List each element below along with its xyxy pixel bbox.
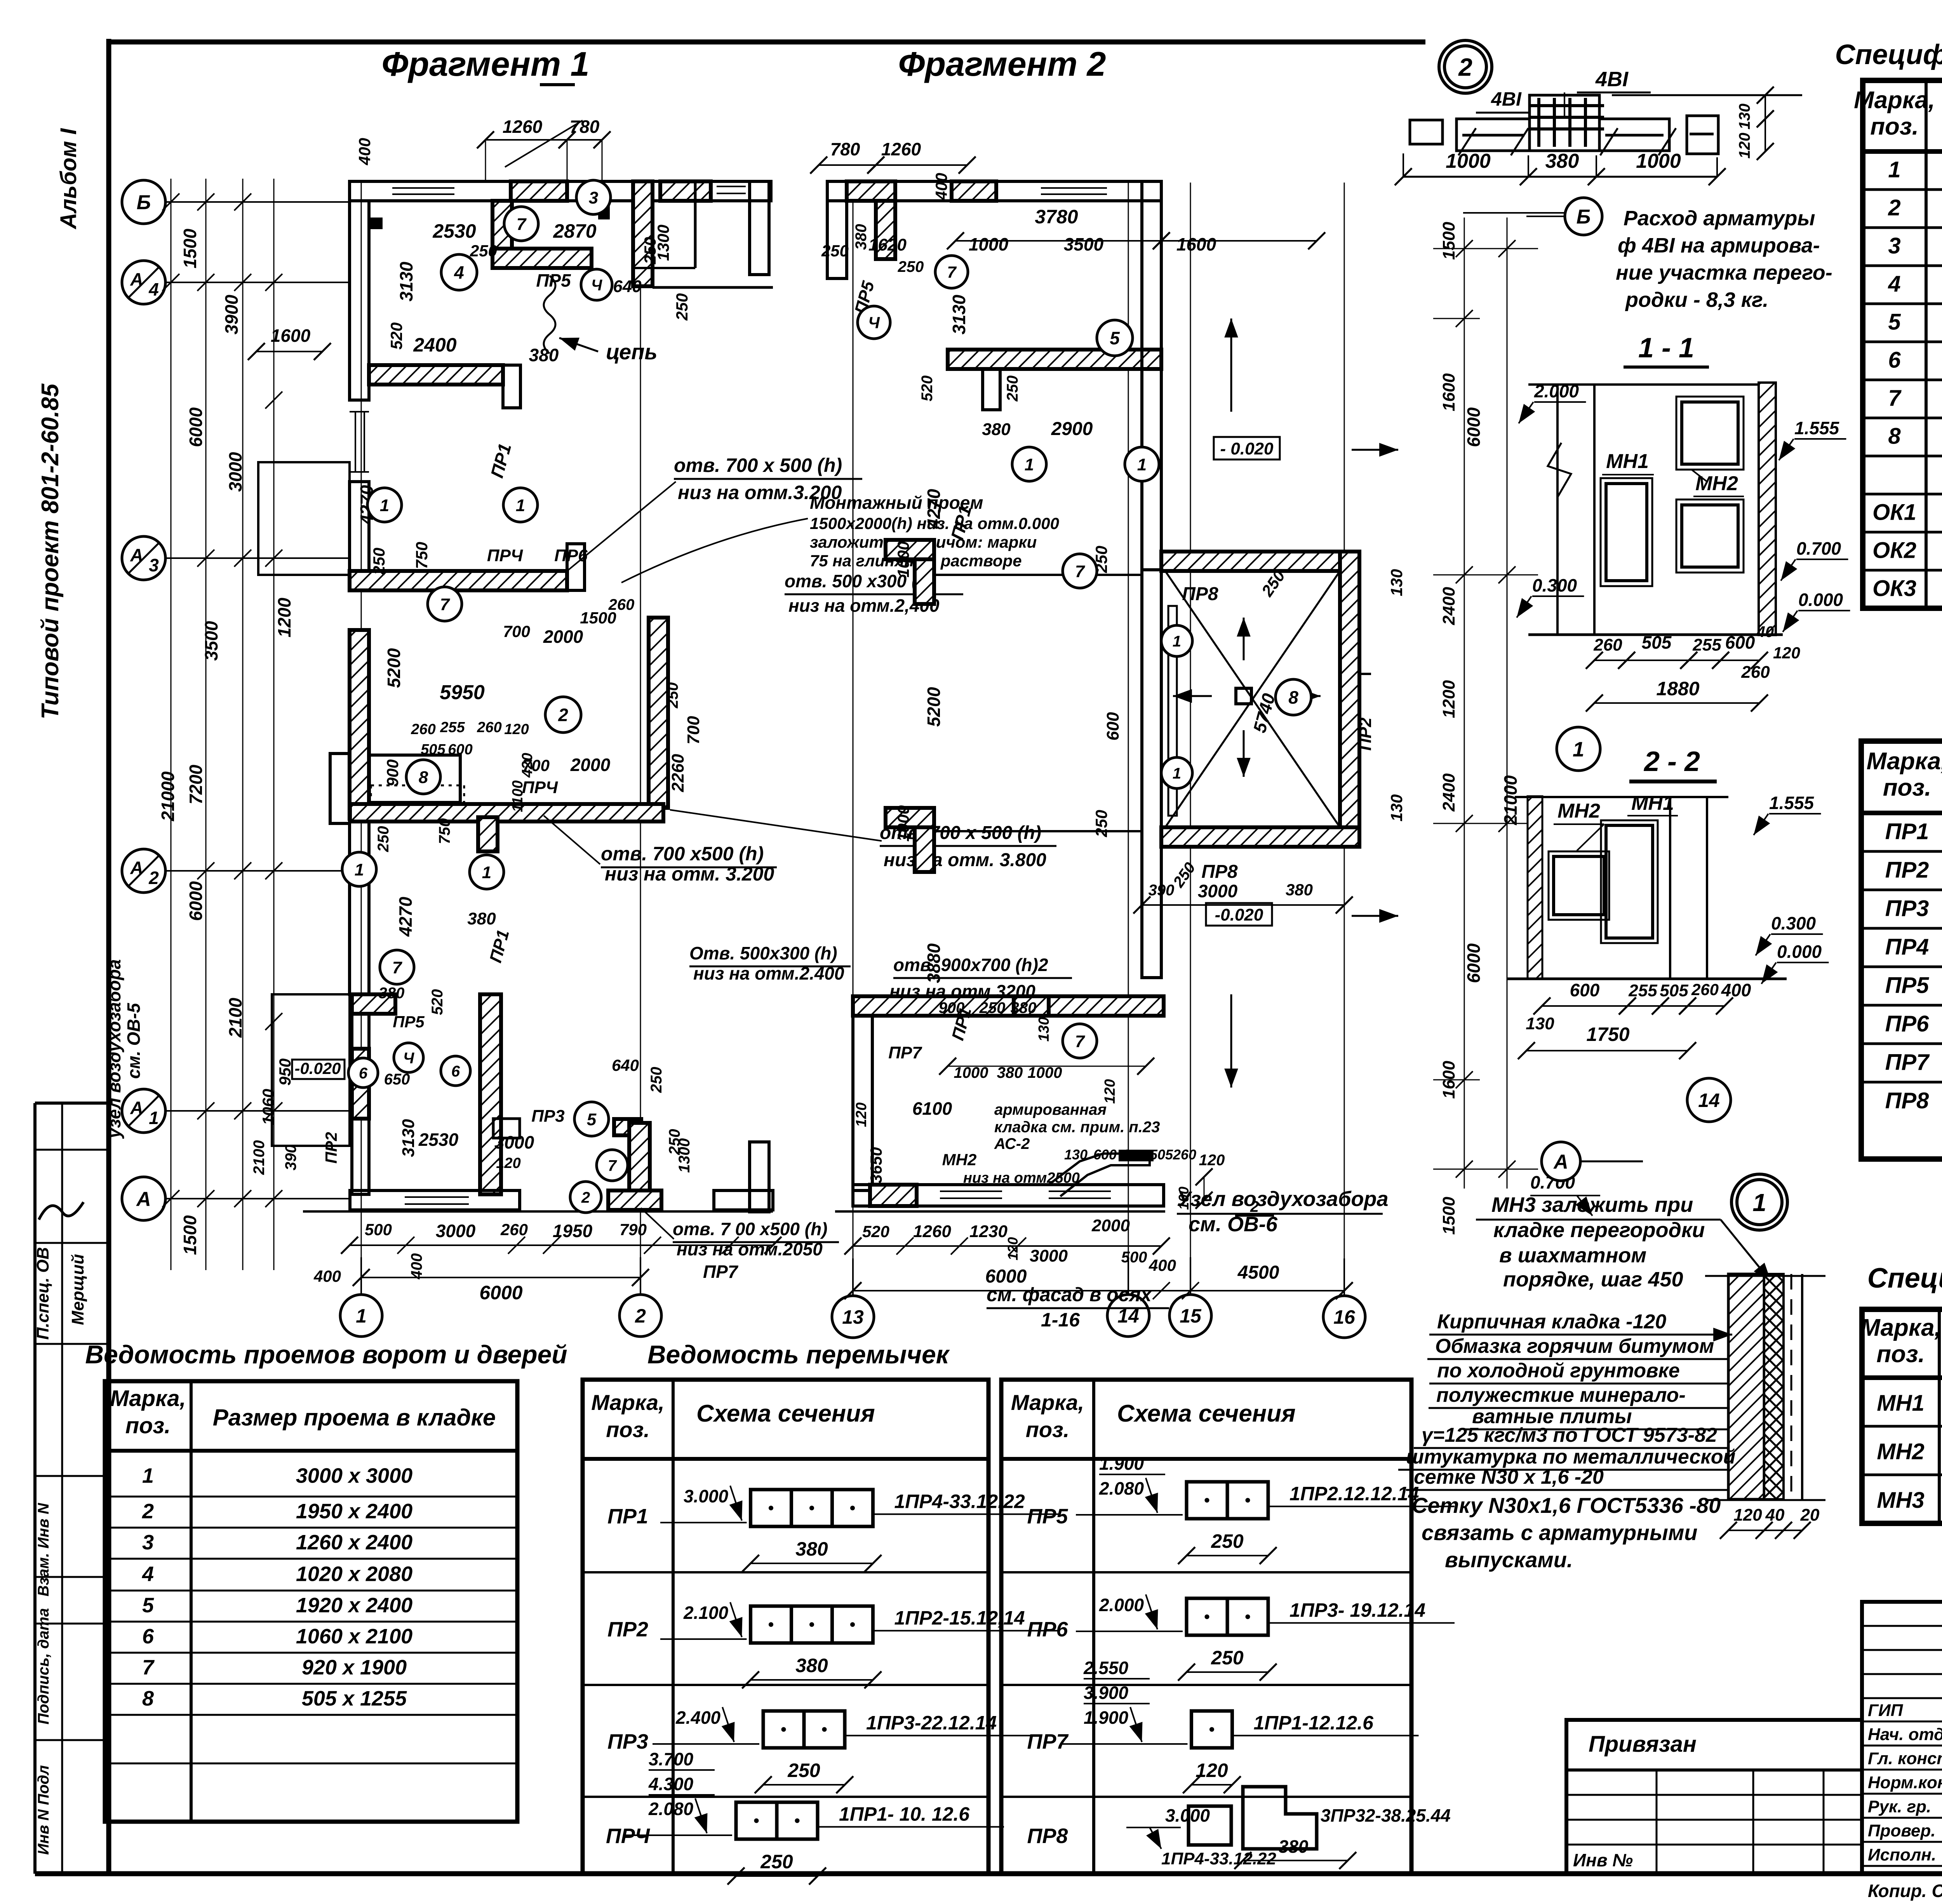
svg-text:500: 500 — [365, 1220, 392, 1239]
svg-text:1500: 1500 — [180, 1215, 200, 1255]
svg-text:120: 120 — [1733, 1505, 1762, 1525]
svg-text:1060: 1060 — [259, 1089, 277, 1125]
svg-text:Кирпичная кладка -120: Кирпичная кладка -120 — [1437, 1311, 1666, 1333]
svg-text:МН1: МН1 — [1631, 792, 1674, 815]
svg-text:120: 120 — [853, 1102, 870, 1127]
svg-text:2: 2 — [1458, 53, 1472, 81]
svg-text:8: 8 — [142, 1687, 154, 1710]
svg-text:250: 250 — [664, 682, 681, 709]
svg-text:отв. 7 00 х500 (h): отв. 7 00 х500 (h) — [673, 1219, 828, 1239]
svg-text:130: 130 — [1064, 1147, 1088, 1163]
svg-text:1200: 1200 — [1439, 680, 1458, 718]
svg-text:в шахматном: в шахматном — [1499, 1244, 1646, 1267]
svg-text:600: 600 — [1570, 980, 1600, 1000]
svg-text:1600: 1600 — [1439, 1061, 1458, 1099]
svg-text:Спецификация элементов заполне: Спецификация элементов заполнения проемо… — [1835, 39, 1942, 70]
svg-text:250: 250 — [898, 258, 924, 275]
svg-text:ПР5: ПР5 — [536, 270, 571, 291]
svg-text:260: 260 — [1691, 980, 1719, 999]
svg-text:3: 3 — [1888, 233, 1900, 259]
svg-text:1: 1 — [380, 496, 389, 515]
svg-text:Марка,: Марка, — [1867, 748, 1942, 775]
svg-text:1: 1 — [142, 1464, 154, 1488]
svg-text:МН3: МН3 — [1877, 1488, 1924, 1513]
svg-text:низ на отм2500: низ на отм2500 — [963, 1170, 1080, 1186]
svg-text:γ=125 кгс/м3 по ГОСТ 9573-82: γ=125 кгс/м3 по ГОСТ 9573-82 — [1422, 1424, 1717, 1446]
svg-text:МН1: МН1 — [1606, 450, 1649, 473]
svg-text:2 - 2: 2 - 2 — [1643, 746, 1700, 777]
svg-text:640: 640 — [613, 277, 642, 296]
svg-text:4: 4 — [142, 1562, 154, 1586]
svg-text:ПР2: ПР2 — [1885, 857, 1929, 882]
svg-text:2.400: 2.400 — [675, 1707, 721, 1728]
svg-text:2100: 2100 — [225, 997, 245, 1038]
svg-text:А: А — [1553, 1151, 1568, 1173]
svg-text:Схема сечения: Схема сечения — [696, 1400, 875, 1427]
svg-text:3.000: 3.000 — [684, 1486, 729, 1506]
svg-text:250: 250 — [1092, 546, 1110, 573]
svg-text:700: 700 — [522, 756, 550, 774]
svg-text:5: 5 — [1888, 310, 1901, 335]
svg-text:1: 1 — [1025, 455, 1034, 474]
svg-text:8: 8 — [1888, 424, 1901, 449]
svg-text:связать с арматурными: связать с арматурными — [1422, 1520, 1697, 1545]
svg-text:Рук. гр.: Рук. гр. — [1868, 1797, 1931, 1816]
svg-text:380: 380 — [1545, 150, 1579, 172]
svg-text:14: 14 — [1698, 1089, 1720, 1111]
svg-text:390: 390 — [282, 1145, 299, 1171]
svg-text:750: 750 — [412, 542, 431, 569]
svg-text:4: 4 — [1888, 272, 1900, 297]
svg-text:1000: 1000 — [894, 541, 912, 577]
svg-text:1950: 1950 — [553, 1221, 593, 1241]
svg-text:3130: 3130 — [396, 261, 416, 301]
svg-text:600: 600 — [448, 741, 472, 758]
svg-text:13: 13 — [842, 1306, 864, 1328]
svg-text:А: А — [130, 858, 143, 878]
svg-text:7: 7 — [947, 263, 957, 281]
svg-text:ПР1: ПР1 — [1885, 819, 1929, 844]
svg-text:2.080: 2.080 — [1099, 1478, 1144, 1498]
svg-text:6000: 6000 — [479, 1282, 522, 1304]
svg-text:260: 260 — [500, 1220, 528, 1239]
svg-text:Узел воздухозабора: Узел воздухозабора — [1177, 1187, 1389, 1211]
svg-text:1600: 1600 — [271, 325, 311, 346]
svg-text:130: 130 — [1387, 569, 1406, 596]
svg-text:Расход арматуры: Расход арматуры — [1624, 207, 1815, 230]
svg-text:250: 250 — [821, 242, 849, 260]
svg-text:цепь: цепь — [606, 339, 658, 364]
svg-text:-0.020: -0.020 — [294, 1059, 341, 1077]
svg-text:ПР3: ПР3 — [607, 1730, 648, 1753]
svg-text:4.300: 4.300 — [648, 1774, 694, 1794]
svg-text:Марка,: Марка, — [1854, 87, 1935, 114]
svg-text:640: 640 — [612, 1056, 639, 1074]
svg-text:1: 1 — [355, 860, 364, 879]
svg-text:Марка,: Марка, — [110, 1386, 186, 1411]
svg-text:0.000: 0.000 — [1777, 942, 1822, 962]
svg-text:7: 7 — [1075, 1032, 1086, 1051]
svg-text:2530: 2530 — [418, 1130, 459, 1150]
svg-text:отв. 700 х 500 (h): отв. 700 х 500 (h) — [674, 454, 842, 476]
svg-text:260: 260 — [477, 719, 501, 736]
svg-text:Нач. отд: Нач. отд — [1868, 1725, 1942, 1744]
svg-text:120: 120 — [1102, 1079, 1118, 1103]
svg-text:2: 2 — [1888, 195, 1900, 221]
svg-text:Марка,: Марка, — [591, 1390, 664, 1415]
svg-text:2: 2 — [635, 1305, 646, 1327]
svg-text:А: А — [130, 1098, 143, 1118]
svg-text:Исполн.: Исполн. — [1868, 1845, 1936, 1864]
svg-text:250: 250 — [673, 293, 691, 321]
svg-text:2.000: 2.000 — [1534, 381, 1579, 401]
svg-text:250: 250 — [648, 1067, 665, 1093]
svg-text:260: 260 — [608, 596, 635, 613]
svg-text:1060 х 2100: 1060 х 2100 — [296, 1625, 412, 1648]
svg-text:А: А — [130, 269, 143, 289]
svg-text:1260: 1260 — [913, 1222, 951, 1241]
svg-text:П.спец. ОВ: П.спец. ОВ — [33, 1247, 52, 1340]
svg-text:650: 650 — [384, 1071, 410, 1088]
svg-text:5200: 5200 — [924, 687, 944, 727]
svg-text:6000: 6000 — [1463, 407, 1484, 447]
svg-text:4270: 4270 — [924, 489, 944, 529]
svg-text:Отв. 500х300 (h): Отв. 500х300 (h) — [689, 943, 837, 963]
svg-text:ПР6: ПР6 — [554, 546, 588, 565]
svg-text:Инв N Подл: Инв N Подл — [35, 1765, 52, 1855]
svg-text:1880: 1880 — [1656, 678, 1699, 700]
svg-text:400: 400 — [1721, 980, 1751, 1000]
svg-text:2: 2 — [558, 705, 568, 725]
svg-text:260: 260 — [1741, 663, 1770, 682]
svg-text:3000: 3000 — [494, 1132, 534, 1152]
svg-text:АС-2: АС-2 — [994, 1135, 1030, 1152]
svg-text:505: 505 — [1642, 632, 1672, 653]
svg-text:5: 5 — [1110, 328, 1120, 348]
svg-text:ПР8: ПР8 — [1201, 861, 1238, 882]
svg-text:4ВI: 4ВI — [1595, 68, 1629, 91]
svg-text:255: 255 — [1692, 635, 1721, 654]
svg-text:низ на отм.2.400: низ на отм.2.400 — [693, 963, 844, 983]
svg-text:ПР7: ПР7 — [703, 1262, 739, 1282]
svg-text:7: 7 — [440, 595, 451, 614]
svg-text:250: 250 — [1092, 810, 1110, 837]
svg-text:Ч: Ч — [403, 1049, 414, 1067]
svg-text:130: 130 — [1736, 104, 1753, 130]
svg-text:130: 130 — [1387, 794, 1406, 821]
svg-text:1000: 1000 — [1028, 1064, 1062, 1081]
svg-text:500: 500 — [1121, 1249, 1147, 1266]
svg-text:ПР3: ПР3 — [1885, 896, 1929, 921]
svg-text:5: 5 — [587, 1110, 597, 1129]
svg-text:см. ОВ-5: см. ОВ-5 — [124, 1002, 144, 1079]
svg-text:3: 3 — [149, 555, 159, 575]
svg-text:7: 7 — [142, 1656, 155, 1679]
svg-text:380: 380 — [997, 1064, 1023, 1081]
svg-text:3130: 3130 — [949, 294, 969, 334]
svg-text:1260 х 2400: 1260 х 2400 — [296, 1531, 412, 1554]
svg-text:ПР2: ПР2 — [322, 1132, 340, 1164]
svg-text:7: 7 — [517, 215, 527, 234]
svg-text:1000: 1000 — [954, 1064, 988, 1081]
svg-text:1: 1 — [482, 863, 491, 882]
svg-text:кладке перегородки: кладке перегородки — [1493, 1218, 1705, 1242]
svg-text:Фрагмент 1: Фрагмент 1 — [381, 45, 589, 83]
svg-text:ОК1: ОК1 — [1872, 500, 1916, 525]
svg-text:3.700: 3.700 — [649, 1749, 694, 1769]
svg-text:1000: 1000 — [894, 805, 912, 841]
svg-text:255: 255 — [1628, 981, 1657, 1000]
svg-text:3900: 3900 — [221, 294, 242, 334]
svg-text:15: 15 — [1180, 1305, 1202, 1327]
svg-text:поз.: поз. — [1870, 113, 1919, 140]
svg-text:1600: 1600 — [1176, 234, 1216, 254]
svg-text:1: 1 — [149, 1108, 159, 1128]
svg-text:поз.: поз. — [125, 1413, 171, 1438]
svg-text:700: 700 — [684, 716, 703, 745]
svg-text:1ПР3-22.12.14: 1ПР3-22.12.14 — [866, 1712, 997, 1734]
svg-text:2000: 2000 — [1091, 1216, 1130, 1235]
svg-text:ПР6: ПР6 — [1027, 1618, 1068, 1641]
svg-text:380: 380 — [379, 985, 405, 1002]
svg-text:Копир. Слипенко: Копир. Слипенко — [1868, 1881, 1942, 1901]
svg-text:3: 3 — [142, 1531, 154, 1554]
svg-text:родки - 8,3 кг.: родки - 8,3 кг. — [1625, 288, 1768, 312]
svg-text:700: 700 — [503, 622, 530, 640]
svg-text:8: 8 — [419, 768, 428, 787]
svg-text:низ на отм.3200: низ на отм.3200 — [889, 981, 1035, 1001]
svg-text:низ на отм.2050: низ на отм.2050 — [677, 1239, 823, 1259]
svg-text:16: 16 — [1333, 1306, 1356, 1328]
svg-text:1230: 1230 — [969, 1222, 1008, 1241]
svg-text:Инв №: Инв № — [1573, 1850, 1633, 1870]
svg-text:поз.: поз. — [1883, 774, 1932, 801]
svg-text:сетке N30 х 1,6: сетке N30 х 1,6 -20 — [1414, 1466, 1604, 1488]
svg-text:1500: 1500 — [180, 228, 200, 268]
svg-text:1: 1 — [1752, 1189, 1766, 1217]
svg-text:1950 х 2400: 1950 х 2400 — [296, 1500, 412, 1523]
svg-text:Провер.: Провер. — [1868, 1821, 1935, 1840]
svg-text:кладка см. прим. п.23: кладка см. прим. п.23 — [994, 1119, 1160, 1136]
svg-text:ПР1: ПР1 — [607, 1505, 648, 1528]
svg-text:900: 900 — [383, 759, 402, 787]
svg-text:3.900: 3.900 — [1084, 1683, 1129, 1703]
svg-text:2400: 2400 — [1439, 773, 1458, 812]
svg-text:-0.020: -0.020 — [1215, 905, 1263, 924]
svg-text:380: 380 — [529, 345, 559, 365]
svg-text:260: 260 — [1173, 1147, 1196, 1163]
svg-text:1.900: 1.900 — [1084, 1707, 1129, 1728]
svg-text:0.300: 0.300 — [1532, 575, 1577, 595]
svg-text:250: 250 — [470, 242, 497, 260]
svg-text:МН2: МН2 — [1557, 800, 1600, 822]
svg-text:2100: 2100 — [251, 1140, 268, 1175]
svg-text:505: 505 — [421, 741, 445, 758]
svg-text:1260: 1260 — [881, 139, 921, 159]
svg-text:1000: 1000 — [969, 234, 1009, 254]
svg-text:380: 380 — [1279, 1836, 1309, 1857]
svg-text:40: 40 — [1765, 1505, 1785, 1525]
svg-text:порядке, шаг 450: порядке, шаг 450 — [1503, 1268, 1683, 1291]
svg-text:120: 120 — [1736, 133, 1753, 159]
svg-text:Б: Б — [1577, 206, 1591, 228]
svg-text:6100: 6100 — [912, 1098, 952, 1119]
svg-text:20: 20 — [1800, 1505, 1820, 1525]
svg-text:1.555: 1.555 — [1794, 418, 1840, 438]
svg-text:1300: 1300 — [676, 1138, 693, 1173]
svg-text:ПР5: ПР5 — [393, 1013, 425, 1031]
svg-text:600: 600 — [1725, 632, 1755, 653]
svg-text:7: 7 — [1075, 562, 1086, 581]
svg-text:МН2: МН2 — [1877, 1439, 1924, 1464]
svg-text:Мерщий: Мерщий — [68, 1254, 87, 1325]
svg-text:400: 400 — [932, 173, 950, 200]
svg-text:2.550: 2.550 — [1083, 1658, 1129, 1678]
svg-text:6: 6 — [142, 1625, 154, 1648]
svg-text:130: 130 — [1526, 1014, 1554, 1033]
svg-text:Ведомость проемов ворот и две: Ведомость проемов ворот и дверей — [85, 1340, 567, 1369]
svg-text:ОК3: ОК3 — [1872, 576, 1916, 601]
svg-text:4ВI: 4ВI — [1491, 88, 1522, 110]
svg-text:21000: 21000 — [1500, 775, 1521, 825]
svg-text:ПР5: ПР5 — [1027, 1505, 1068, 1528]
svg-text:400: 400 — [408, 1253, 425, 1280]
svg-text:МН2: МН2 — [942, 1150, 977, 1169]
svg-text:2.100: 2.100 — [683, 1603, 729, 1623]
svg-text:см. фасад в осях: см. фасад в осях — [987, 1284, 1152, 1305]
svg-text:2.000: 2.000 — [1099, 1595, 1144, 1615]
svg-text:2530: 2530 — [432, 220, 476, 242]
svg-text:4: 4 — [148, 279, 159, 299]
svg-text:2260: 2260 — [668, 754, 687, 792]
svg-text:1: 1 — [1137, 455, 1147, 474]
svg-text:2: 2 — [142, 1500, 154, 1523]
svg-text:МН1: МН1 — [1877, 1391, 1924, 1416]
svg-text:250: 250 — [375, 826, 392, 853]
svg-text:380: 380 — [795, 1538, 828, 1560]
svg-text:полужесткие минерало-: полужесткие минерало- — [1436, 1384, 1686, 1406]
svg-text:ПР8: ПР8 — [1027, 1824, 1068, 1848]
svg-text:8: 8 — [1288, 687, 1298, 708]
svg-text:900: 900 — [939, 999, 965, 1016]
svg-text:40: 40 — [1756, 623, 1774, 640]
svg-text:780: 780 — [830, 139, 860, 159]
svg-text:250: 250 — [1004, 376, 1021, 402]
svg-text:Взам. Инв N: Взам. Инв N — [35, 1503, 52, 1597]
svg-text:Размер проема в кладке: Размер проема в кладке — [213, 1405, 496, 1431]
svg-text:3780: 3780 — [1035, 206, 1078, 228]
svg-text:ф 4ВI на армирова-: ф 4ВI на армирова- — [1618, 234, 1820, 257]
svg-text:Подпись, дата: Подпись, дата — [35, 1608, 52, 1725]
svg-text:120: 120 — [1199, 1152, 1225, 1169]
svg-text:по холодной грунтовке: по холодной грунтовке — [1437, 1359, 1680, 1382]
svg-text:штукатурка по металлической: штукатурка по металлической — [1406, 1446, 1735, 1468]
svg-text:520: 520 — [919, 376, 936, 402]
svg-text:2: 2 — [581, 1189, 590, 1206]
svg-text:120: 120 — [504, 721, 529, 738]
svg-text:120: 120 — [496, 1155, 520, 1171]
svg-text:ПР3: ПР3 — [531, 1107, 564, 1126]
svg-text:Альбом I: Альбом I — [56, 128, 81, 230]
svg-text:130: 130 — [1036, 1017, 1052, 1041]
svg-text:750: 750 — [436, 818, 453, 844]
svg-text:отв. 700 х500 (h): отв. 700 х500 (h) — [601, 843, 764, 865]
svg-text:3000 х 3000: 3000 х 3000 — [296, 1464, 412, 1488]
svg-text:ПРЧ: ПРЧ — [487, 546, 523, 565]
svg-text:6000: 6000 — [186, 881, 206, 921]
svg-text:1 - 1: 1 - 1 — [1638, 332, 1694, 364]
svg-text:380: 380 — [1011, 999, 1037, 1016]
svg-text:А: А — [136, 1188, 151, 1211]
svg-text:2400: 2400 — [413, 334, 456, 356]
svg-text:1ПР1-12.12.6: 1ПР1-12.12.6 — [1254, 1712, 1374, 1734]
svg-text:2870: 2870 — [553, 220, 596, 242]
svg-text:380: 380 — [853, 224, 870, 250]
svg-text:2400: 2400 — [1439, 587, 1458, 625]
svg-text:250: 250 — [787, 1760, 820, 1781]
svg-text:255: 255 — [440, 719, 465, 736]
svg-text:Б: Б — [137, 191, 151, 214]
svg-text:600: 600 — [1103, 712, 1122, 741]
svg-text:1000: 1000 — [1636, 150, 1681, 172]
svg-text:ние участка перего-: ние участка перего- — [1616, 261, 1832, 284]
svg-text:600: 600 — [1093, 1147, 1117, 1163]
svg-text:Ведомость перемычек: Ведомость перемычек — [647, 1340, 950, 1369]
svg-text:армированная: армированная — [994, 1101, 1107, 1118]
svg-text:505 х 1255: 505 х 1255 — [302, 1687, 407, 1710]
svg-text:Ч: Ч — [868, 313, 880, 332]
svg-text:Сетку N30х1,6 ГОСТ5336 -80: Сетку N30х1,6 ГОСТ5336 -80 — [1412, 1493, 1721, 1518]
svg-text:260: 260 — [1593, 635, 1622, 654]
svg-text:120: 120 — [1195, 1760, 1228, 1781]
svg-text:ПР6: ПР6 — [1885, 1011, 1929, 1036]
svg-text:3: 3 — [589, 188, 598, 207]
svg-text:505: 505 — [1150, 1147, 1173, 1163]
svg-text:0.000: 0.000 — [1798, 590, 1843, 610]
svg-text:Гл. констр.: Гл. констр. — [1868, 1749, 1942, 1768]
svg-text:МН2: МН2 — [1695, 472, 1738, 495]
svg-text:400: 400 — [1148, 1256, 1176, 1274]
svg-text:1ПР4-33.12.22: 1ПР4-33.12.22 — [894, 1491, 1025, 1512]
svg-text:отв. 900х700 (h)2: отв. 900х700 (h)2 — [893, 955, 1048, 975]
svg-text:7: 7 — [608, 1157, 617, 1174]
svg-text:ПР5: ПР5 — [1885, 973, 1929, 998]
svg-text:1ПР4-33.12.22: 1ПР4-33.12.22 — [1161, 1849, 1276, 1868]
svg-text:Схема сечения: Схема сечения — [1117, 1400, 1296, 1427]
svg-text:120: 120 — [1005, 1237, 1021, 1260]
svg-text:Ч: Ч — [591, 277, 602, 294]
svg-text:1: 1 — [1173, 765, 1181, 782]
svg-text:3000: 3000 — [1030, 1246, 1068, 1265]
svg-text:7200: 7200 — [186, 764, 206, 804]
svg-text:6: 6 — [359, 1065, 368, 1082]
svg-text:250: 250 — [1211, 1647, 1244, 1669]
svg-text:ПР8: ПР8 — [1182, 584, 1218, 604]
svg-text:выпусками.: выпусками. — [1445, 1547, 1573, 1572]
svg-text:920 х 1900: 920 х 1900 — [302, 1656, 407, 1679]
svg-text:380: 380 — [1286, 881, 1313, 899]
svg-text:4270: 4270 — [395, 896, 416, 937]
svg-text:1920 х 2400: 1920 х 2400 — [296, 1594, 412, 1617]
svg-text:2900: 2900 — [1051, 419, 1093, 439]
svg-text:- 0.020: - 0.020 — [1220, 439, 1274, 458]
svg-text:120: 120 — [1773, 644, 1800, 662]
svg-text:МН3 заложить при: МН3 заложить при — [1491, 1193, 1693, 1217]
svg-text:7: 7 — [392, 958, 403, 977]
svg-text:505: 505 — [1660, 981, 1688, 1000]
svg-text:низ на отм. 3.800: низ на отм. 3.800 — [884, 850, 1046, 870]
svg-text:2.080: 2.080 — [648, 1799, 694, 1819]
